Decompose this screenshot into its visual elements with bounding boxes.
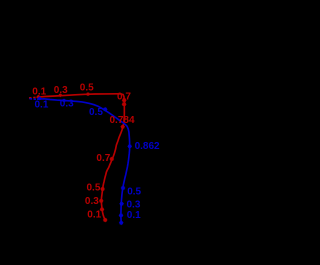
svg-text:0.784: 0.784 — [110, 115, 135, 126]
red marker 0.7 lower — [109, 157, 114, 162]
blue marker 0.1 lower — [119, 213, 124, 218]
blue marker 0.3 top — [62, 99, 66, 103]
blue marker 0.3 lower — [119, 201, 124, 206]
red marker 0.3 top — [58, 93, 62, 97]
blue marker 0.5 lower — [121, 186, 126, 191]
red curve leading dashes — [29, 96, 36, 99]
red marker 0.1 lower — [100, 207, 105, 212]
red marker 0.5 top — [86, 92, 90, 96]
red marker 0.784 point — [120, 124, 125, 129]
blue marker 0.1 top — [38, 96, 42, 100]
red marker 0.784 — [122, 102, 127, 107]
svg-text:0.1: 0.1 — [127, 210, 141, 221]
blue curve main path — [37, 99, 130, 223]
svg-text:0.7: 0.7 — [96, 153, 110, 164]
red marker 0.1 top — [36, 95, 40, 99]
svg-text:0.862: 0.862 — [135, 141, 160, 152]
svg-text:0.5: 0.5 — [80, 82, 94, 93]
svg-text:0.3: 0.3 — [85, 196, 99, 207]
blue marker end — [119, 220, 124, 225]
blue marker 0.862 — [127, 144, 132, 149]
svg-text:0.3: 0.3 — [60, 99, 74, 110]
svg-text:0.7: 0.7 — [117, 92, 131, 103]
red marker 0.5 lower — [100, 187, 105, 192]
svg-text:0.5: 0.5 — [127, 186, 141, 197]
svg-text:0.1: 0.1 — [87, 210, 101, 221]
red marker 0.7 top corner — [122, 98, 127, 103]
blue marker 0.5 top — [103, 107, 108, 112]
svg-text:0.5: 0.5 — [87, 182, 101, 193]
svg-text:0.3: 0.3 — [54, 85, 68, 96]
svg-text:0.5: 0.5 — [89, 107, 103, 118]
blue curve leading dashes — [30, 98, 37, 101]
red marker 0.3 lower — [99, 199, 104, 204]
svg-text:0.1: 0.1 — [35, 100, 49, 111]
svg-text:0.1: 0.1 — [32, 87, 46, 98]
red marker end — [103, 218, 108, 223]
red curve main path — [37, 94, 125, 220]
